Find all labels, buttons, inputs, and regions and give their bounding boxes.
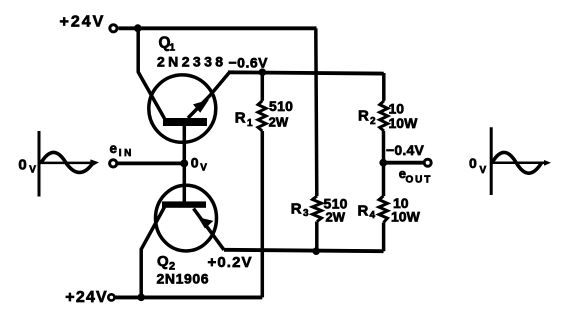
svg-text:+24V: +24V	[65, 289, 108, 306]
svg-text:10W: 10W	[391, 209, 421, 225]
svg-text:Q: Q	[157, 253, 169, 270]
svg-text:IN: IN	[119, 148, 134, 159]
svg-text:2N1906: 2N1906	[157, 271, 210, 287]
svg-text:510: 510	[269, 98, 293, 114]
svg-text:1: 1	[169, 41, 175, 53]
svg-text:V: V	[200, 163, 207, 174]
svg-text:1: 1	[247, 118, 253, 129]
svg-text:10: 10	[389, 101, 405, 117]
svg-text:−0.4V: −0.4V	[386, 142, 424, 158]
svg-text:2W: 2W	[269, 115, 289, 130]
svg-text:e: e	[110, 141, 118, 156]
svg-text:3: 3	[303, 208, 309, 219]
svg-text:R: R	[291, 201, 302, 218]
svg-text:0: 0	[469, 155, 477, 171]
svg-text:OUT: OUT	[406, 175, 433, 186]
svg-text:4: 4	[370, 210, 376, 221]
svg-text:+24V: +24V	[60, 14, 106, 31]
svg-text:10W: 10W	[389, 115, 419, 131]
svg-text:2W: 2W	[326, 209, 346, 224]
svg-text:2N2338: 2N2338	[157, 54, 226, 70]
svg-text:+0.2V: +0.2V	[208, 254, 253, 271]
svg-text:R: R	[235, 109, 246, 126]
svg-text:V: V	[29, 164, 36, 175]
svg-text:V: V	[480, 165, 487, 176]
svg-text:0: 0	[18, 157, 26, 174]
svg-text:2: 2	[370, 116, 376, 127]
svg-text:R: R	[358, 202, 369, 219]
svg-text:−0.6V: −0.6V	[229, 55, 269, 71]
svg-text:0: 0	[191, 154, 199, 170]
svg-text:R: R	[358, 107, 369, 124]
